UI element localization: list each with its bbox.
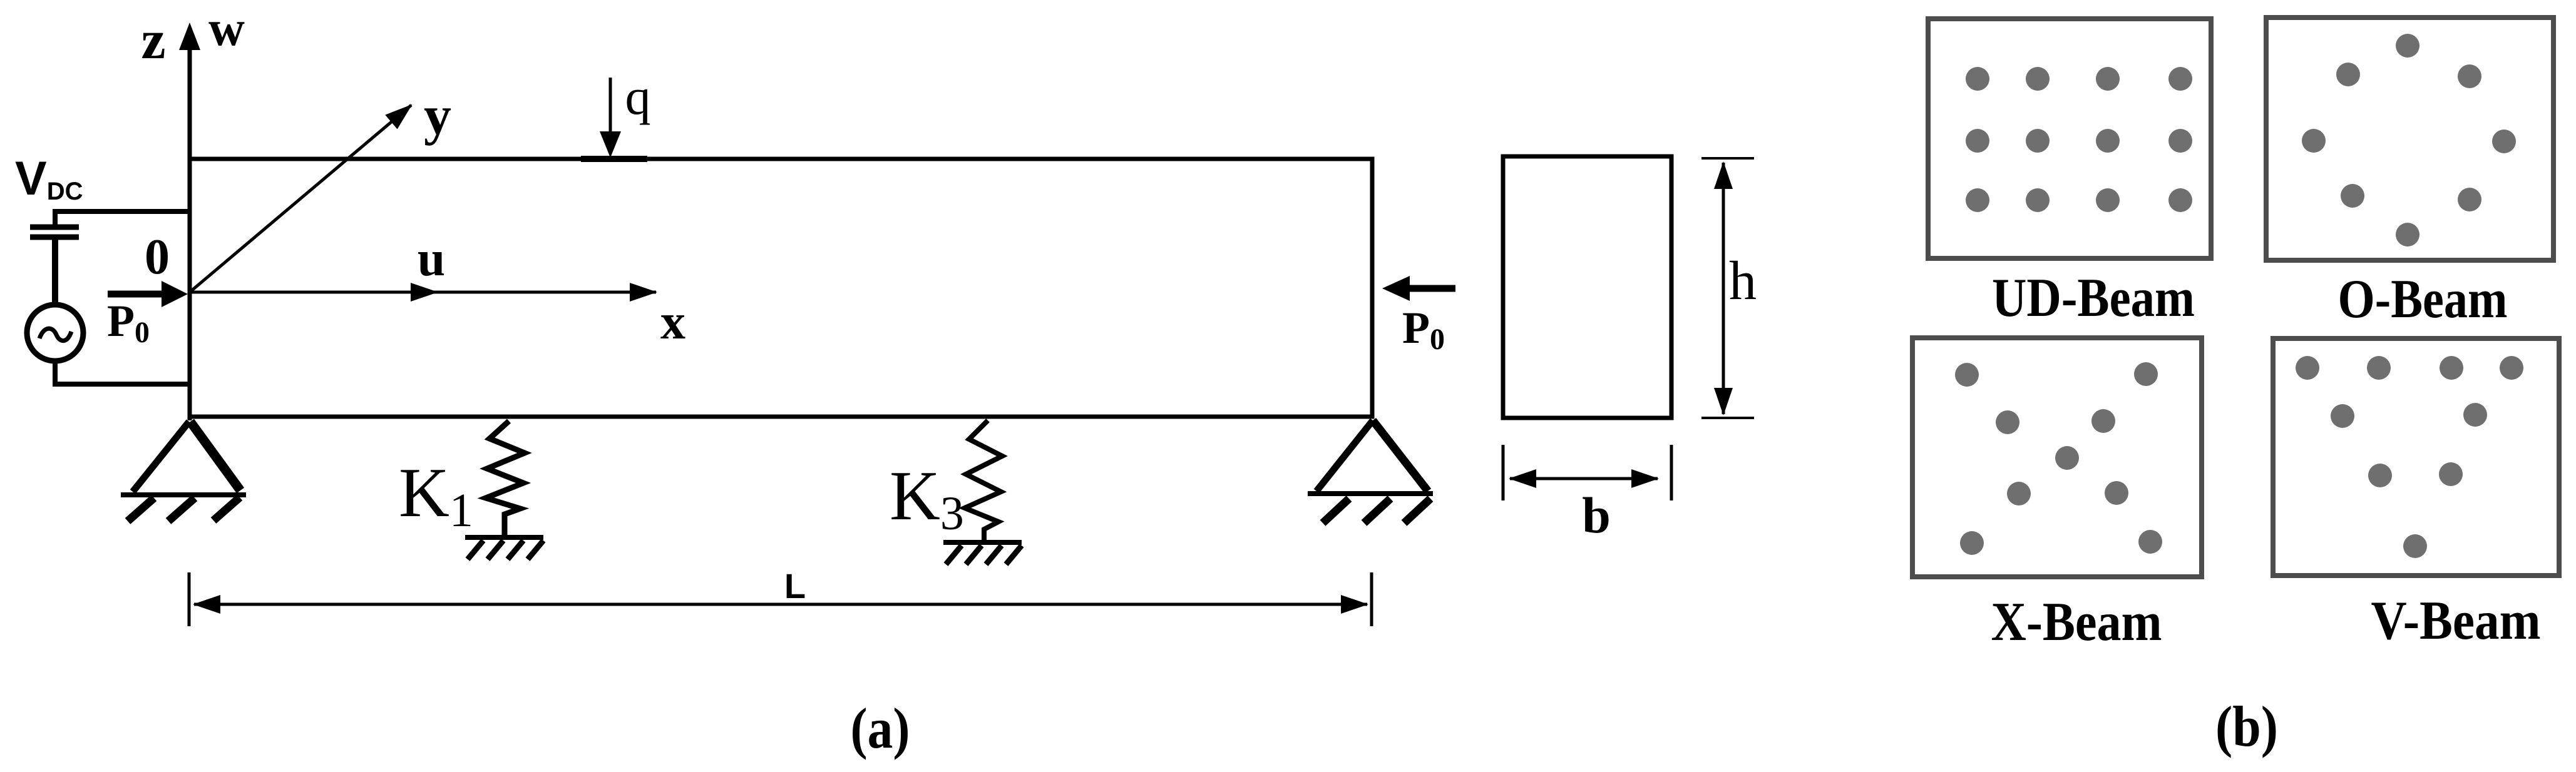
X-Beam box [1912, 338, 2202, 577]
svg-text:L: L [784, 566, 806, 606]
svg-text:q: q [625, 68, 651, 125]
wire from V_DC top to beam [55, 211, 190, 225]
label V_DC [15, 152, 83, 205]
svg-text:VDC: VDC [15, 152, 83, 205]
pin support right [1308, 420, 1433, 523]
svg-text:K1: K1 [399, 454, 473, 537]
label P0 right [1402, 303, 1445, 356]
dimension h [1701, 158, 1754, 418]
axis label u [418, 231, 446, 287]
svg-text:u: u [418, 231, 446, 287]
AC source [27, 305, 83, 361]
force P0 right arrow [1382, 276, 1455, 301]
V-Beam fibers [2296, 356, 2523, 558]
caption (b) [2215, 694, 2278, 758]
force P0 left arrow [108, 281, 188, 307]
axis label w [208, 1, 245, 56]
svg-text:P0: P0 [107, 296, 150, 349]
svg-text:P0: P0 [1402, 303, 1445, 356]
dimension label b [1582, 487, 1611, 544]
O-Beam fibers [2302, 34, 2516, 246]
X-Beam fibers [1955, 362, 2162, 555]
label UD-Beam [1992, 268, 2195, 328]
svg-text:X-Beam: X-Beam [1991, 592, 2162, 653]
dimension label h [1729, 251, 1757, 312]
label P0 left [107, 296, 150, 349]
spring K1 [486, 421, 525, 537]
svg-text:0: 0 [145, 230, 170, 285]
UD-Beam fibers [1966, 67, 2192, 212]
UD-Beam box [1928, 19, 2211, 258]
beam outline [190, 159, 1372, 417]
load q arrow [581, 78, 647, 159]
dimension label L [784, 566, 806, 606]
caption (a) [851, 696, 910, 760]
axis label z [141, 10, 165, 71]
x axis [190, 283, 656, 302]
svg-text:h: h [1729, 251, 1757, 312]
load label q [625, 68, 651, 125]
svg-text:b: b [1582, 487, 1611, 544]
axis label x [660, 295, 685, 350]
svg-text:z: z [141, 10, 165, 71]
origin label 0 [145, 230, 170, 285]
label K3 [890, 457, 964, 540]
wire AC source to beam bottom [55, 361, 190, 384]
label X-Beam [1991, 592, 2162, 653]
V-Beam box [2273, 338, 2559, 576]
spring K3 [965, 420, 1002, 542]
dimension L [189, 572, 1372, 626]
pin support left [121, 422, 246, 521]
svg-text:(a): (a) [851, 696, 910, 760]
svg-text:(b): (b) [2215, 694, 2278, 758]
capacitor C [30, 227, 79, 237]
svg-text:O-Beam: O-Beam [2338, 269, 2508, 330]
label V-Beam [2371, 591, 2541, 651]
y axis [190, 105, 411, 292]
axis label y [424, 86, 451, 146]
dimension b [1503, 445, 1671, 500]
z-w axis [179, 23, 200, 420]
svg-text:K3: K3 [890, 457, 964, 540]
svg-text:UD-Beam: UD-Beam [1992, 268, 2195, 328]
label O-Beam [2338, 269, 2508, 330]
svg-text:y: y [424, 86, 451, 146]
svg-text:x: x [660, 295, 685, 350]
svg-text:V-Beam: V-Beam [2371, 591, 2541, 651]
ground under K1 [465, 537, 543, 559]
label K1 [399, 454, 473, 537]
svg-text:w: w [208, 1, 245, 56]
O-Beam box [2266, 18, 2553, 260]
ground under K3 [943, 542, 1022, 564]
wire capacitor to AC source [52, 240, 58, 306]
cross-section rectangle [1503, 156, 1671, 418]
